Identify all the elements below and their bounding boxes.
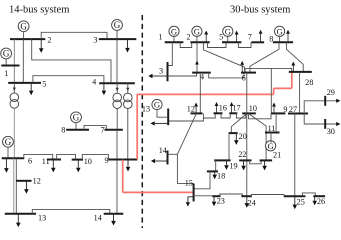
bus 4 bar (30-bus) bbox=[192, 72, 211, 74]
wire line 10-21 bbox=[248, 113, 266, 160]
wire line 2-5 bbox=[208, 42, 227, 47]
wire line 3-4 bbox=[116, 39, 118, 83]
wire line 7-8 bbox=[84, 126, 106, 130]
svg-text:G: G bbox=[154, 100, 160, 110]
transformer 4-7 bbox=[113, 93, 122, 108]
injection arrow at bus 9 bbox=[272, 103, 276, 114]
bus 10 bar (14-bus) bbox=[72, 159, 83, 161]
bus 27 bar (30-bus) bbox=[288, 113, 308, 115]
svg-text:9: 9 bbox=[283, 105, 287, 114]
load arrow at bus 4 bbox=[102, 83, 107, 95]
wire G-stem to bus 1 bbox=[173, 36, 175, 43]
injection arrow at bus 16 bbox=[215, 102, 219, 113]
wire line 9-10 bbox=[249, 113, 272, 118]
svg-text:10: 10 bbox=[249, 104, 257, 113]
wire line 4-12 bbox=[199, 73, 201, 114]
injection arrow at bus 6 bbox=[240, 61, 244, 73]
bus 15 bar (30-bus, vertical) bbox=[193, 184, 195, 202]
wire line 6-28 bbox=[245, 68, 292, 72]
wire line 15-18 bbox=[194, 171, 210, 188]
wire G-stem to bus 6 bbox=[7, 147, 9, 158]
svg-text:26: 26 bbox=[317, 197, 325, 206]
svg-text:1: 1 bbox=[4, 69, 8, 78]
svg-text:G: G bbox=[225, 26, 231, 36]
bus 9 bar (30-bus) bbox=[271, 112, 285, 114]
svg-text:20: 20 bbox=[239, 132, 247, 141]
wire line 24-25 bbox=[251, 195, 284, 197]
injection arrow at bus 2 bbox=[204, 31, 208, 43]
arrowhead on transformer 5-6 stem bbox=[13, 88, 16, 92]
bus 19 bar (30-bus) bbox=[214, 159, 230, 161]
wire line 10-9 bbox=[82, 154, 108, 159]
wire G-stem to bus 2 bbox=[23, 32, 25, 39]
wire line 27-25 bbox=[294, 114, 296, 197]
generator G at bus 8 (30-bus) bbox=[275, 26, 285, 36]
red tie-line (segment C) bbox=[273, 88, 275, 94]
svg-text:21: 21 bbox=[273, 151, 281, 160]
wire G-stem to bus 3 bbox=[116, 30, 118, 39]
bus 12 bar (14-bus) bbox=[16, 180, 32, 182]
injection arrow at bus 12 bbox=[194, 103, 198, 114]
load arrow at bus 26 bbox=[312, 196, 317, 205]
red tie-line (segment B) bbox=[274, 87, 292, 89]
bus 24 bar (30-bus) bbox=[241, 195, 252, 197]
wire line 3-4 bbox=[168, 73, 197, 76]
bus 26 bar (30-bus) bbox=[313, 195, 325, 197]
wire bus5 to transformer 5-6 bbox=[13, 83, 15, 93]
wire line 25-26 bbox=[302, 193, 315, 196]
wire line 16-17 bbox=[221, 113, 230, 118]
bus 9 bar (14-bus) bbox=[108, 159, 137, 161]
svg-text:14: 14 bbox=[94, 214, 102, 223]
svg-text:8: 8 bbox=[269, 34, 273, 43]
svg-text:5: 5 bbox=[42, 80, 46, 89]
generator G at bus 1 (14-bus) bbox=[1, 48, 12, 59]
transformer 5-6 bbox=[10, 93, 19, 108]
injection arrow at bus 7 bbox=[259, 30, 263, 43]
bus 6 bar (30-bus) bbox=[241, 72, 256, 74]
load arrow at bus 10 bbox=[76, 160, 81, 173]
bus 3 bar (30-bus, vertical) bbox=[167, 62, 169, 81]
svg-text:14: 14 bbox=[159, 146, 167, 155]
load arrow at bus 20 bbox=[234, 133, 239, 145]
wire line 2-5 bbox=[22, 39, 24, 83]
wire G-stem to bus 8 bbox=[279, 36, 281, 43]
svg-text:24: 24 bbox=[248, 198, 256, 207]
wire line 6-12-13 bbox=[15, 158, 17, 214]
wire transformer 5-6 to bus 6 bbox=[13, 108, 15, 158]
svg-text:G: G bbox=[276, 26, 282, 36]
svg-text:19: 19 bbox=[229, 161, 237, 170]
wire line 23-24 bbox=[220, 194, 243, 196]
svg-text:4: 4 bbox=[92, 77, 96, 86]
svg-text:6: 6 bbox=[28, 156, 32, 165]
svg-text:12: 12 bbox=[33, 177, 41, 186]
red tie-line (segment G) bbox=[123, 191, 194, 193]
wire G-stem to bus 13 bbox=[157, 109, 168, 118]
generator G at bus 11 (30-bus) bbox=[266, 141, 276, 151]
bus 8 bar (14-bus) bbox=[66, 129, 89, 131]
wire line 15-23 bbox=[194, 195, 213, 197]
svg-text:13: 13 bbox=[142, 104, 150, 113]
svg-text:G: G bbox=[5, 137, 12, 147]
bus 18 bar (30-bus) bbox=[207, 170, 218, 172]
wire line 8-6 bbox=[250, 42, 279, 72]
load arrow at bus 24 bbox=[245, 196, 250, 208]
svg-text:22: 22 bbox=[238, 150, 246, 159]
wire line 5-7 bbox=[238, 42, 251, 47]
wire line 5-4 bbox=[33, 76, 104, 84]
wire line 9-14 bbox=[116, 160, 118, 214]
load arrow at bus 13 bbox=[151, 121, 169, 125]
load arrow at bus 19 bbox=[224, 160, 229, 170]
svg-text:30: 30 bbox=[327, 127, 335, 136]
dashed divider between systems bbox=[141, 15, 143, 228]
svg-text:16: 16 bbox=[219, 104, 227, 113]
injection arrow at bus 28 bbox=[291, 62, 295, 72]
svg-text:30-bus system: 30-bus system bbox=[230, 5, 290, 16]
wire bus4 to transformer 4-9 bbox=[127, 83, 129, 93]
load arrow at bus 22 bbox=[241, 160, 246, 170]
bus 17 bar (30-bus) bbox=[229, 112, 237, 114]
load arrow at bus 9 bbox=[126, 160, 131, 172]
svg-text:G: G bbox=[171, 26, 177, 36]
svg-text:5: 5 bbox=[219, 33, 223, 42]
load arrow at bus 23 bbox=[212, 196, 217, 206]
wire G-stem to bus 8 bbox=[75, 123, 77, 130]
generator G at bus 2 (30-bus) bbox=[192, 26, 202, 36]
bus 1 bar (30-bus) bbox=[165, 41, 184, 43]
wire line 19-20 bbox=[228, 133, 230, 160]
load arrow at bus 11 bbox=[51, 160, 56, 173]
transformer 4-9 bbox=[124, 93, 133, 108]
wire line 6-10-22-24 bbox=[246, 73, 248, 197]
bus 2 bar (30-bus) bbox=[190, 41, 209, 43]
bus 13 bar (30-bus, vertical) bbox=[167, 109, 169, 126]
load arrow at bus 2 bbox=[39, 39, 44, 53]
wire transformer 4-7 to bus 7 bbox=[116, 109, 118, 130]
arrowhead line to 29 bbox=[336, 99, 340, 103]
bus 5 bar (14-bus) bbox=[8, 82, 41, 84]
wire line 21-22 bbox=[250, 160, 261, 163]
wire G-stem to bus 5 bbox=[227, 36, 229, 43]
wire line 14-15 bbox=[177, 154, 193, 183]
arrowhead on transformer 4-9 stem bbox=[126, 88, 129, 92]
wire line 4-6 bbox=[209, 73, 244, 78]
svg-text:17: 17 bbox=[232, 104, 240, 113]
load arrow at bus 25 bbox=[293, 196, 298, 209]
red tie-line (segment D) bbox=[137, 93, 273, 95]
generator G at bus 13 (30-bus) bbox=[152, 99, 162, 109]
svg-text:14-bus system: 14-bus system bbox=[9, 4, 69, 15]
svg-text:10: 10 bbox=[84, 157, 92, 166]
svg-text:27: 27 bbox=[289, 105, 297, 114]
wire line 1-2 / 1-5 bbox=[13, 39, 15, 83]
bus 22 bar (30-bus) bbox=[239, 159, 251, 161]
svg-text:7: 7 bbox=[101, 126, 105, 135]
load arrow at bus 21 bbox=[262, 160, 267, 170]
load arrow at bus 6 bbox=[4, 158, 9, 173]
svg-text:1: 1 bbox=[159, 33, 163, 42]
load arrow at bus 18 bbox=[212, 171, 217, 179]
load arrow at bus 15 bbox=[186, 197, 194, 207]
bus 12 bar (30-bus) bbox=[191, 112, 203, 114]
load arrow at bus 14 bbox=[111, 214, 116, 226]
wire line 7-9 bbox=[116, 130, 118, 160]
svg-text:3: 3 bbox=[93, 35, 97, 44]
svg-text:G: G bbox=[73, 113, 80, 123]
bus 10 bar (30-bus) bbox=[242, 112, 256, 114]
wire line 27-29 bbox=[304, 101, 338, 114]
bus 6 bar (14-bus) bbox=[2, 157, 25, 159]
load arrow at bus 12 bbox=[24, 181, 29, 194]
bus 8 bar (30-bus) bbox=[273, 41, 293, 43]
wire G-stem bus 11 bbox=[270, 133, 272, 143]
generator G at bus 8 (14-bus) bbox=[71, 112, 82, 123]
wire line 12-14 bbox=[168, 113, 197, 154]
bus 30 bar (vertical tick) bbox=[324, 119, 326, 129]
load arrow at bus 13 bbox=[16, 214, 21, 228]
bus 3 bar (14-bus) bbox=[99, 38, 137, 40]
wire line 6-11 bbox=[24, 154, 53, 159]
bus 2 bar (14-bus) bbox=[10, 38, 45, 40]
svg-text:11: 11 bbox=[268, 124, 276, 133]
load arrow at bus 3 bbox=[148, 74, 167, 78]
svg-text:18: 18 bbox=[217, 172, 225, 181]
load arrow at bus 5 bbox=[29, 83, 34, 95]
wire line 13-14 bbox=[32, 209, 110, 213]
svg-text:6: 6 bbox=[242, 73, 246, 82]
wire line 12-13 bbox=[168, 113, 203, 121]
wire line 18-19 bbox=[215, 160, 217, 171]
bus 28 bar (30-bus) bbox=[289, 71, 312, 73]
svg-text:25: 25 bbox=[297, 197, 305, 206]
bus 25 bar (30-bus) bbox=[284, 195, 306, 197]
generator G at bus 2 (14-bus) bbox=[18, 21, 29, 32]
bus 21 bar (30-bus) bbox=[260, 159, 273, 161]
wire bus4 to transformer 4-7 bbox=[116, 83, 118, 93]
svg-text:15: 15 bbox=[185, 179, 193, 188]
generator G at bus 6 (14-bus) bbox=[3, 136, 14, 147]
wire line 6-13 bbox=[13, 158, 15, 214]
arrowhead line to 30 bbox=[336, 122, 340, 126]
svg-text:G: G bbox=[114, 20, 121, 30]
injection arrow at bus 17 bbox=[230, 102, 234, 113]
wire line 17-10 bbox=[236, 113, 245, 118]
red tie-line (segment E) bbox=[136, 94, 138, 159]
svg-text:23: 23 bbox=[217, 196, 225, 205]
svg-text:G: G bbox=[20, 22, 27, 32]
svg-text:11: 11 bbox=[42, 157, 50, 166]
wire line 2-3 bbox=[41, 32, 107, 39]
svg-text:28: 28 bbox=[305, 78, 313, 87]
injection arrow at bus 5 bbox=[235, 31, 239, 43]
bus 20 bar (30-bus) bbox=[229, 132, 238, 134]
arrowhead on transformer 4-7 stem bbox=[116, 88, 119, 92]
load arrow at bus 14 bbox=[151, 159, 168, 163]
wire line 10-20 bbox=[231, 113, 247, 133]
svg-text:2: 2 bbox=[47, 36, 51, 45]
bus 14 bar (14-bus) bbox=[104, 213, 124, 215]
bus 11 bar (30-bus) bbox=[265, 132, 280, 134]
wire line 9-11 bbox=[275, 113, 277, 132]
injection arrow at bus 8 bbox=[286, 30, 290, 43]
bus 11 bar (14-bus) bbox=[47, 159, 61, 161]
wire line 2-4 bbox=[32, 39, 111, 83]
wire line 27-30 bbox=[304, 114, 338, 125]
svg-text:7: 7 bbox=[248, 33, 252, 42]
svg-text:29: 29 bbox=[327, 88, 335, 97]
wire line 12-16 bbox=[203, 113, 215, 118]
wire transformer 4-9 to bus 9 bbox=[127, 109, 129, 160]
svg-text:12: 12 bbox=[187, 104, 195, 113]
svg-text:13: 13 bbox=[38, 213, 46, 222]
bus 16 bar (30-bus) bbox=[214, 112, 223, 114]
wire line 1-3 bbox=[168, 42, 173, 65]
svg-text:G: G bbox=[194, 26, 200, 36]
bus 7 bar (30-bus) bbox=[251, 41, 264, 43]
wire line 6-9 bbox=[270, 68, 272, 113]
load arrow at bus 3 bbox=[125, 39, 130, 52]
wire G-stem to bus 2 bbox=[196, 36, 198, 43]
svg-text:3: 3 bbox=[159, 66, 163, 75]
generator G at bus 3 (14-bus) bbox=[112, 20, 123, 31]
generator G at bus 5 (30-bus) bbox=[223, 26, 233, 36]
wire line 28-27 bbox=[299, 72, 301, 114]
generator G at bus 1 (30-bus) bbox=[169, 26, 179, 36]
svg-text:8: 8 bbox=[61, 126, 65, 135]
svg-text:2: 2 bbox=[186, 33, 190, 42]
bus 4 bar (14-bus) bbox=[99, 82, 135, 84]
bus 7 bar (14-bus) bbox=[105, 129, 123, 131]
wire line 8-28 bbox=[287, 42, 304, 72]
wire line 11-10 bbox=[57, 154, 76, 159]
wire line 2-4 with arrow bbox=[195, 42, 199, 72]
red tie-line bus9 to bus15 (segment F) bbox=[122, 160, 124, 193]
bus 29 bar (vertical tick) bbox=[324, 96, 326, 106]
bus 14 bar (30-bus, vertical) bbox=[167, 151, 169, 165]
wire line 2-6 bbox=[203, 42, 244, 72]
bus 23 bar (30-bus) bbox=[212, 195, 220, 197]
wire G-stem to bus 1 bbox=[5, 59, 7, 65]
svg-text:G: G bbox=[3, 49, 10, 59]
red tie-line bus28 to bus9 (segment A) bbox=[291, 72, 293, 89]
bus 1 bar (14-bus) bbox=[1, 65, 19, 67]
bus 5 bar (30-bus) bbox=[222, 41, 241, 43]
wire line 1-2 bbox=[180, 42, 192, 47]
bus 13 bar (14-bus) bbox=[5, 213, 36, 215]
